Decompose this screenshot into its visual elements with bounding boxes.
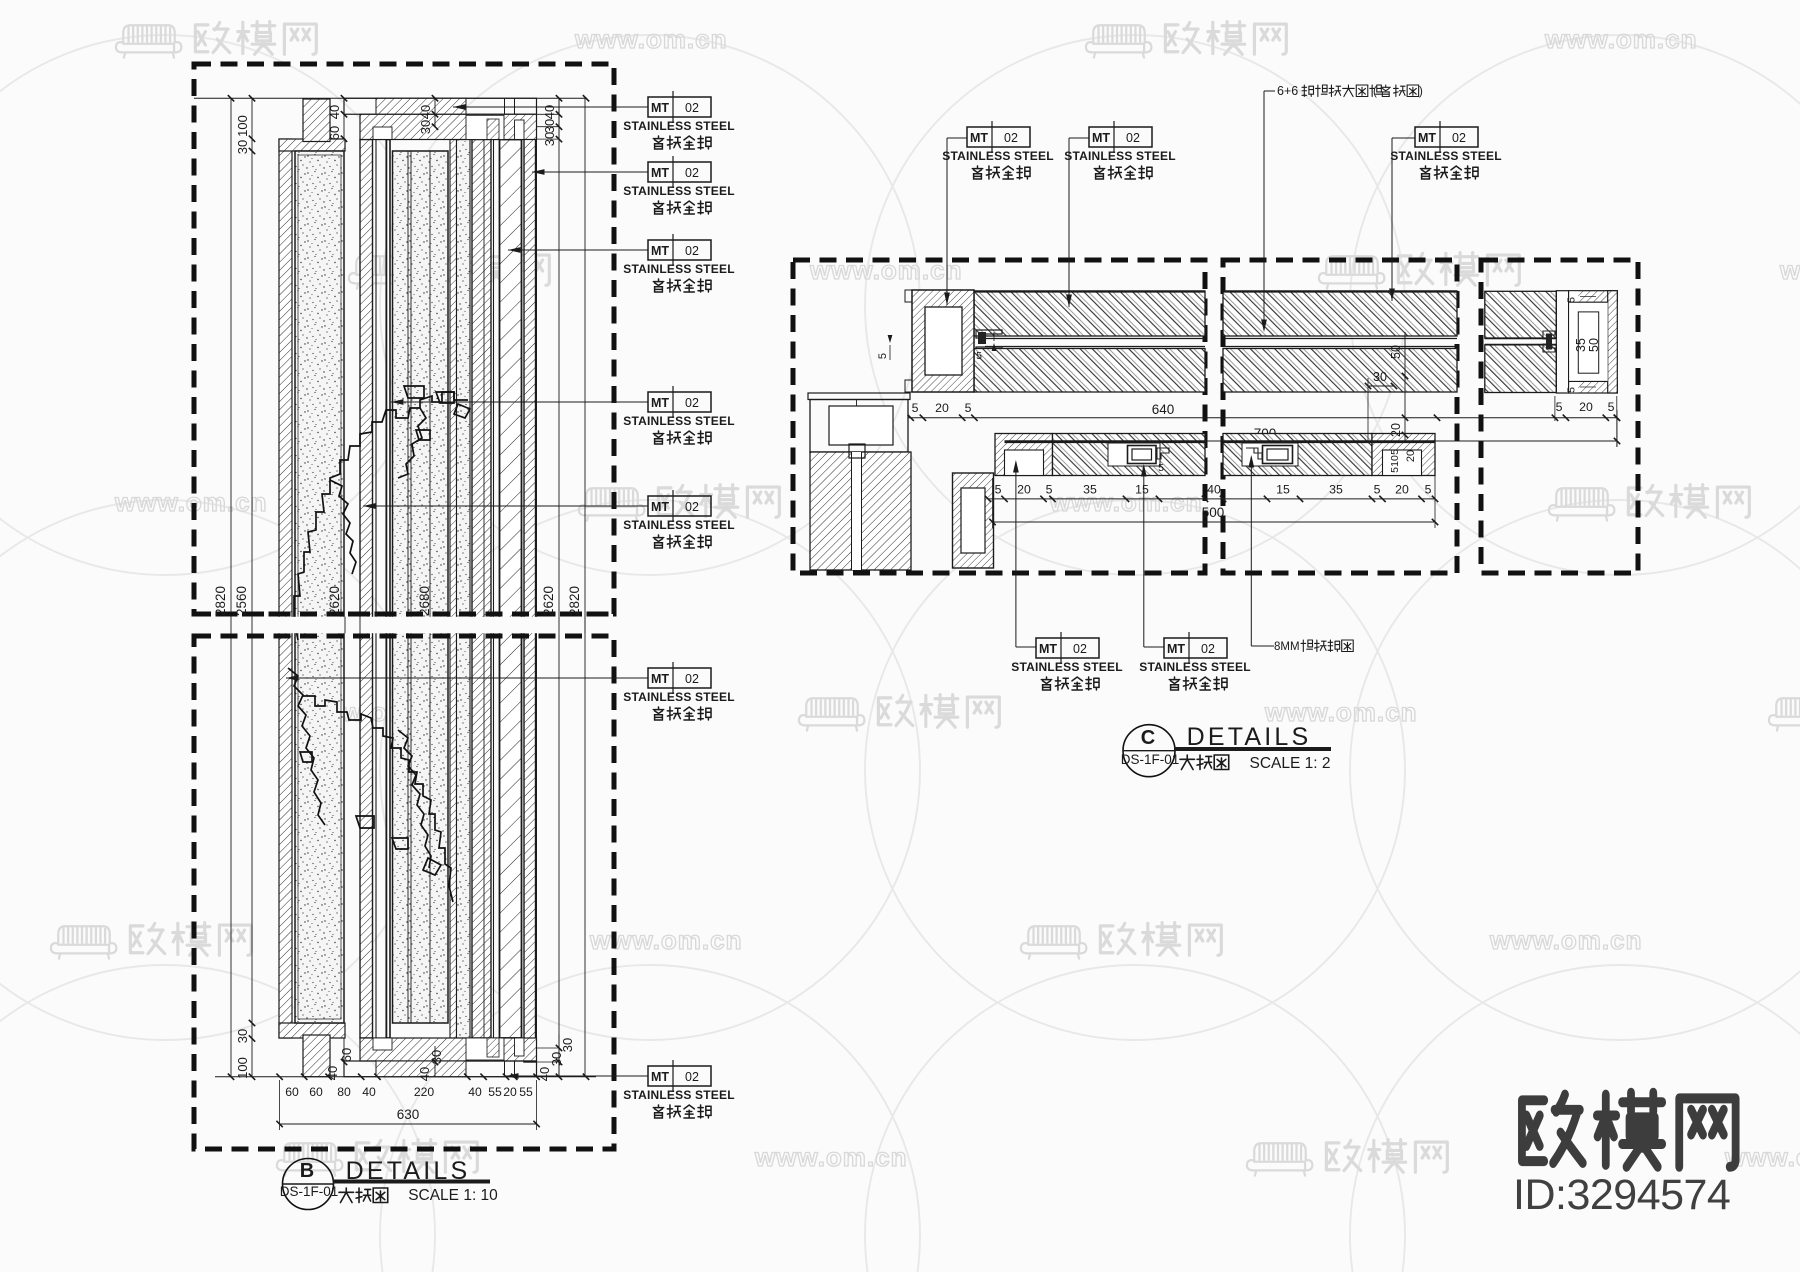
svg-text:5: 5	[1425, 483, 1432, 497]
top dimension line	[194, 97, 587, 99]
svg-text:MT: MT	[651, 672, 669, 686]
svg-text:20: 20	[1389, 423, 1403, 437]
glass shoe fitting box2	[1263, 446, 1293, 464]
bottom rail left cap C-profile	[995, 434, 1053, 476]
bottom rail right cap C-profile box2	[1372, 434, 1435, 476]
top rail bar row2 hatched	[360, 114, 537, 139]
ceiling bar A box2 hatched	[1223, 291, 1457, 336]
svg-text:5: 5	[1389, 467, 1401, 473]
svg-text:MT: MT	[651, 500, 669, 514]
site logo large	[1522, 1093, 1736, 1167]
svg-text:60: 60	[339, 1048, 354, 1062]
leader stem #2	[1069, 137, 1089, 139]
svg-text:10: 10	[1389, 455, 1401, 467]
svg-text:500: 500	[1202, 505, 1225, 520]
svg-text:STAINLESS STEEL: STAINLESS STEEL	[623, 518, 734, 532]
svg-text:30: 30	[560, 1038, 575, 1052]
title circle C	[1123, 725, 1175, 777]
bottom dim chain box1/box2	[988, 498, 1435, 500]
svg-text:02: 02	[685, 672, 699, 686]
leader 6+6 glass	[1264, 90, 1275, 92]
svg-text:30: 30	[542, 119, 557, 133]
svg-text:STAINLESS STEEL: STAINLESS STEEL	[1139, 660, 1250, 674]
svg-text:30: 30	[542, 132, 557, 146]
svg-text:STAINLESS STEEL: STAINLESS STEEL	[1390, 149, 1501, 163]
watermark logo stamps	[116, 22, 316, 58]
glass lines box3	[1485, 338, 1557, 340]
ceiling bar A box1 hatched	[974, 291, 1205, 336]
mullion tube section	[912, 290, 974, 392]
bottom dim chain 60/40	[343, 1038, 345, 1077]
floor steel tube	[810, 400, 908, 453]
end cap white strip box3	[1556, 291, 1568, 393]
hatched trim strip 2	[450, 140, 457, 1039]
svg-text:5: 5	[1374, 483, 1381, 497]
svg-text:MT: MT	[651, 396, 669, 410]
svg-text:SCALE 1: 2: SCALE 1: 2	[1250, 755, 1331, 772]
inner rect box3	[1578, 312, 1598, 373]
svg-text:MT: MT	[1039, 642, 1057, 656]
svg-text:SCALE 1: 10: SCALE 1: 10	[408, 1187, 498, 1204]
svg-text:02: 02	[1004, 131, 1018, 145]
title label dayangtu B	[339, 1188, 388, 1203]
marble panel 2 dotted	[393, 151, 449, 1023]
marble panel 2 inner joint lines	[407, 151, 409, 1023]
anchor rod	[852, 452, 862, 570]
label MT02 left-drawing #4	[648, 392, 711, 412]
extension line 2820 left	[230, 98, 232, 1077]
marble panel 1 dotted	[295, 151, 344, 1023]
hatched trim strip 1	[360, 140, 373, 1039]
top rail bar row1	[344, 98, 537, 114]
svg-text:40: 40	[362, 1085, 376, 1099]
leader line #6	[286, 677, 648, 679]
svg-text:02: 02	[685, 244, 699, 258]
dashed edge box B top	[194, 634, 614, 639]
svg-text:MT: MT	[651, 101, 669, 115]
leader line #5	[363, 505, 648, 507]
marble crack lines top box	[294, 386, 470, 640]
dotted trim strip	[457, 140, 471, 1039]
bottom wall hatch block	[303, 1035, 330, 1077]
marble crack lines bottom box	[288, 668, 453, 902]
leader line #3	[508, 249, 648, 251]
svg-text:40: 40	[468, 1085, 482, 1099]
dashed boundary box C2	[1223, 260, 1457, 573]
dim chain 40/30/30 right	[558, 98, 560, 140]
dashed boundary box C3	[1481, 260, 1638, 573]
dim line 500	[993, 521, 1436, 523]
floor slab hatched	[810, 452, 911, 570]
svg-text:30: 30	[418, 120, 433, 134]
svg-text:02: 02	[685, 396, 699, 410]
ceiling bar B box1 hatched	[974, 349, 1205, 393]
svg-text:MT: MT	[1418, 131, 1436, 145]
tempered glass thick line box2	[1223, 440, 1435, 443]
svg-text:5: 5	[995, 483, 1002, 497]
svg-text:STAINLESS STEEL: STAINLESS STEEL	[623, 414, 734, 428]
svg-text:5: 5	[1158, 462, 1164, 474]
svg-text:40: 40	[418, 105, 433, 119]
svg-text:5: 5	[976, 350, 982, 362]
svg-text:MT: MT	[1167, 642, 1185, 656]
svg-text:40: 40	[1207, 483, 1221, 497]
svg-text:MT: MT	[651, 244, 669, 258]
dim line 640	[974, 417, 1617, 419]
stone frame hatched cap bottom	[279, 1023, 345, 1038]
svg-text:5: 5	[1046, 483, 1053, 497]
svg-text:6+6: 6+6	[1277, 84, 1298, 98]
svg-text:02: 02	[1452, 131, 1466, 145]
top wall hatch block	[303, 99, 330, 142]
svg-text:5: 5	[1566, 297, 1578, 303]
bottom rail bar box1 hatched	[1053, 434, 1206, 476]
svg-text:STAINLESS STEEL: STAINLESS STEEL	[623, 690, 734, 704]
svg-text:5: 5	[1389, 449, 1401, 455]
svg-text:40: 40	[327, 105, 342, 119]
dim chain 40/30	[434, 98, 436, 127]
hatched frame band right	[524, 115, 536, 1062]
svg-text:2620: 2620	[541, 586, 556, 616]
svg-text:55: 55	[488, 1085, 502, 1099]
leader line #4	[391, 401, 648, 403]
svg-text:STAINLESS STEEL: STAINLESS STEEL	[623, 119, 734, 133]
dim 50/20 vertical chain box2	[1404, 332, 1406, 441]
stone frame hatched cap top	[279, 139, 345, 151]
svg-text:STAINLESS STEEL: STAINLESS STEEL	[1064, 149, 1175, 163]
svg-text:60: 60	[309, 1085, 323, 1099]
label MT02 left-drawing #2	[648, 162, 711, 182]
svg-text:02: 02	[1073, 642, 1087, 656]
stone frame hatched band left	[279, 139, 292, 1038]
svg-text:220: 220	[414, 1085, 435, 1099]
svg-text:2820: 2820	[567, 586, 582, 616]
total 630 dimension	[280, 1123, 537, 1125]
svg-text:ID:3294574: ID:3294574	[1513, 1171, 1730, 1219]
svg-text:100: 100	[235, 1057, 250, 1079]
junction gap white band	[262, 617, 582, 633]
svg-text:640: 640	[1152, 402, 1175, 417]
laminated glass lines box2	[1223, 338, 1457, 340]
floor top plate	[808, 393, 910, 400]
tempered glass thick line box1	[1005, 440, 1206, 443]
label MT02 right-drawing bottom #1	[1036, 638, 1099, 658]
svg-text:35: 35	[1574, 338, 1588, 352]
svg-text:2820: 2820	[213, 586, 228, 616]
svg-text:50: 50	[1389, 345, 1403, 359]
svg-text:): )	[1419, 86, 1423, 98]
extension line 2820 right	[584, 98, 586, 1077]
svg-text:STAINLESS STEEL: STAINLESS STEEL	[623, 262, 734, 276]
title underline C	[1174, 747, 1331, 751]
extension line 2560 left	[251, 98, 253, 1077]
dim chain 40/60	[343, 98, 345, 139]
svg-text:20: 20	[1405, 450, 1417, 462]
dashed edge box T bottom	[194, 612, 614, 617]
svg-text:80: 80	[337, 1085, 351, 1099]
svg-text:02: 02	[685, 166, 699, 180]
svg-text:5: 5	[1566, 387, 1578, 393]
label MT02 left-drawing #6	[648, 668, 711, 688]
svg-text:5: 5	[965, 401, 972, 415]
dim chain 30/100 left	[249, 136, 255, 142]
label MT02 right-drawing top #3	[1415, 127, 1478, 147]
svg-text:20: 20	[935, 401, 949, 415]
svg-text:30: 30	[549, 1052, 564, 1066]
leader stem #1	[947, 137, 967, 139]
svg-text:MT: MT	[1092, 131, 1110, 145]
svg-text:DS-1F-01: DS-1F-01	[1121, 752, 1180, 767]
leader line #2	[532, 171, 648, 173]
svg-text:15: 15	[1276, 483, 1290, 497]
hatched trim strip 3	[472, 140, 491, 1039]
svg-text:(: (	[1373, 86, 1377, 98]
svg-text:5: 5	[1608, 400, 1615, 414]
svg-text:DS-1F-01: DS-1F-01	[280, 1184, 339, 1199]
svg-text:C: C	[1141, 727, 1155, 749]
bottom rail bar row2 hatched	[360, 1038, 537, 1061]
svg-text:30: 30	[1373, 370, 1387, 384]
title circle B	[283, 1159, 334, 1210]
bottom dimension chain line	[215, 1076, 596, 1078]
white channel strip	[494, 140, 500, 1039]
short extension lines to right chain	[537, 113, 560, 115]
mullion cap tabs	[905, 290, 912, 302]
svg-text:02: 02	[1126, 131, 1140, 145]
svg-text:02: 02	[685, 1070, 699, 1084]
wall bar top box3 hatched	[1485, 291, 1557, 338]
svg-text:5: 5	[877, 353, 889, 359]
svg-text:20: 20	[1395, 483, 1409, 497]
svg-text:STAINLESS STEEL: STAINLESS STEEL	[623, 184, 734, 198]
svg-text:60: 60	[327, 126, 342, 140]
leader line #7	[506, 1075, 648, 1077]
svg-text:8MM: 8MM	[1274, 641, 1300, 653]
glass shoe fitting box1	[1128, 446, 1157, 464]
label MT02 left-drawing #7	[648, 1066, 711, 1086]
svg-text:40: 40	[537, 1067, 552, 1081]
svg-text:40: 40	[325, 1066, 340, 1080]
svg-text:15: 15	[1135, 483, 1149, 497]
svg-text:B: B	[300, 1160, 314, 1182]
svg-text:50: 50	[1587, 338, 1601, 352]
svg-text:DETAILS: DETAILS	[1187, 723, 1312, 751]
label MT02 left-drawing #3	[648, 240, 711, 260]
bottom rail bar row1	[344, 1061, 537, 1077]
label MT02 right-drawing top #2	[1089, 127, 1152, 147]
lines continuing through gap	[344, 617, 346, 633]
bottom dim chain 30/100 left	[249, 1020, 255, 1026]
svg-text:MT: MT	[651, 1070, 669, 1084]
glass panel hatched wide	[500, 140, 522, 1039]
lower mullion tube section	[953, 473, 994, 568]
svg-text:MT: MT	[970, 131, 988, 145]
leader line #1	[453, 106, 648, 108]
dark steel strip 1	[387, 140, 391, 1039]
ceiling bar B box2 hatched	[1223, 349, 1457, 393]
svg-text:5: 5	[1556, 400, 1563, 414]
label MT02 right-drawing bottom #2	[1164, 638, 1227, 658]
svg-text:MT: MT	[651, 166, 669, 180]
bottom rail bar box2 hatched	[1223, 434, 1372, 476]
dashed boundary box C1	[793, 260, 1205, 573]
laminated glass lines box1	[985, 338, 1205, 340]
svg-text:630: 630	[397, 1107, 420, 1122]
svg-text:40: 40	[417, 1067, 432, 1081]
svg-text:55: 55	[519, 1085, 533, 1099]
label MT02 right-drawing top #1	[967, 127, 1030, 147]
svg-text:2560: 2560	[234, 586, 249, 616]
svg-text:60: 60	[285, 1085, 299, 1099]
dashed detail boundary box B top	[194, 64, 614, 614]
white trim strip	[376, 140, 386, 1039]
bottom dim chain 30/30/40 right	[558, 1034, 560, 1077]
title label dayangtu C	[1180, 755, 1229, 770]
extension line 2620 right	[558, 98, 560, 1077]
svg-text:STAINLESS STEEL: STAINLESS STEEL	[942, 149, 1053, 163]
svg-text:30: 30	[429, 1050, 444, 1064]
leader stem #3	[1392, 137, 1415, 139]
bottom dim chain 30/40	[434, 1046, 436, 1077]
svg-text:20: 20	[1017, 483, 1031, 497]
dim 30 box2	[1368, 385, 1394, 387]
svg-text:5: 5	[912, 401, 919, 415]
label MT02 left-drawing #1	[648, 97, 711, 117]
svg-text:20: 20	[503, 1085, 517, 1099]
svg-text:2680: 2680	[417, 586, 432, 616]
svg-text:STAINLESS STEEL: STAINLESS STEEL	[1011, 660, 1122, 674]
label MT02 left-drawing #5	[648, 496, 711, 516]
svg-text:02: 02	[1201, 642, 1215, 656]
svg-text:02: 02	[685, 101, 699, 115]
dim line 700	[1125, 440, 1618, 442]
svg-text:02: 02	[685, 500, 699, 514]
svg-text:35: 35	[1329, 483, 1343, 497]
svg-text:30: 30	[235, 140, 250, 154]
glass clamp fittings box1	[976, 330, 1002, 355]
svg-text:30: 30	[235, 1029, 250, 1043]
svg-text:100: 100	[235, 115, 250, 137]
title underline B	[333, 1180, 490, 1184]
svg-text:STAINLESS STEEL: STAINLESS STEEL	[623, 1088, 734, 1102]
wall bar bottom box3 hatched	[1485, 345, 1557, 393]
svg-text:35: 35	[1083, 483, 1097, 497]
svg-text:20: 20	[1579, 400, 1593, 414]
svg-text:2620: 2620	[327, 586, 342, 616]
dashed detail boundary box B bottom	[194, 636, 614, 1149]
end cap C-profile box3	[1569, 291, 1618, 303]
